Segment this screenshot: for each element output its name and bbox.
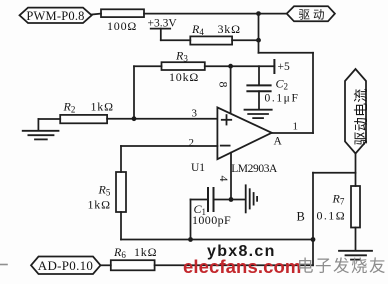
junction pin8 supply	[228, 64, 233, 69]
svg-text:1000pF: 1000pF	[192, 213, 231, 227]
wire output net vertical from top rail	[258, 14, 260, 53]
wire R3 left down to pin3 node	[133, 66, 135, 118]
svg-text:10kΩ: 10kΩ	[169, 70, 199, 84]
scan artifact left edge	[0, 264, 7, 266]
svg-text:R7: R7	[332, 192, 345, 207]
svg-text:1kΩ: 1kΩ	[91, 100, 114, 114]
wire bottom rail	[121, 239, 313, 241]
port 驱动	[287, 6, 335, 21]
wire R6 to node B	[155, 264, 313, 266]
svg-text:R4: R4	[191, 22, 204, 37]
svg-text:+5: +5	[278, 61, 290, 73]
junction C1 riser	[188, 237, 193, 242]
resistor R7	[317, 186, 361, 228]
ground R2	[23, 119, 59, 139]
junction pin4 node	[229, 197, 234, 202]
svg-text:3kΩ: 3kΩ	[218, 22, 241, 36]
svg-text:0.1Ω: 0.1Ω	[317, 209, 347, 223]
wire AD to R6	[101, 264, 111, 266]
svg-text:LM2903A: LM2903A	[231, 163, 278, 175]
ground pin4 (sideways)	[246, 185, 257, 212]
port PWM-P0.8	[20, 8, 92, 23]
svg-text:R3: R3	[175, 49, 188, 64]
svg-text:R2: R2	[63, 100, 76, 115]
wire node B horizontal	[313, 172, 356, 174]
port 驱动电流	[345, 69, 370, 154]
wire ground to R2	[38, 118, 60, 120]
svg-text:8: 8	[217, 82, 231, 88]
resistor R4	[190, 22, 241, 45]
wire pin2 down to R5	[120, 146, 122, 172]
ground C2	[245, 110, 272, 118]
ground R7	[339, 251, 372, 260]
junction top rail	[256, 11, 261, 16]
svg-text:AD-P0.10: AD-P0.10	[38, 258, 94, 273]
svg-text:C2: C2	[276, 77, 289, 92]
resistor R5	[88, 172, 127, 212]
svg-text:电子发烧友: 电子发烧友	[297, 257, 387, 276]
svg-text:1kΩ: 1kΩ	[134, 245, 157, 259]
wire R3 right to +5	[205, 65, 275, 67]
svg-text:驱动电流: 驱动电流	[354, 88, 370, 145]
wire port to R7	[355, 154, 357, 187]
resistor R6	[111, 245, 158, 271]
junction pin3 node	[132, 116, 137, 121]
wire top rail to drive port	[144, 13, 287, 15]
svg-text:2: 2	[189, 137, 195, 149]
wire op-amp output pin1	[272, 132, 313, 134]
svg-text:驱动: 驱动	[299, 8, 328, 21]
capacitor C2	[247, 66, 299, 109]
resistor R3	[162, 49, 205, 85]
wire output net horizontal	[259, 52, 314, 54]
junction B riser on rail	[311, 237, 316, 242]
wire PWM to 100ohm resistor	[92, 13, 101, 16]
resistor R2	[60, 100, 114, 124]
wire output net down to pin1	[312, 53, 314, 133]
svg-text:1kΩ: 1kΩ	[88, 198, 111, 212]
svg-text:U1: U1	[191, 162, 205, 174]
svg-text:PWM-P0.8: PWM-P0.8	[26, 9, 84, 23]
power +3.3V	[148, 18, 178, 41]
svg-text:A: A	[274, 136, 283, 148]
wire pin4 to ground	[231, 199, 246, 201]
junction R4 right	[256, 38, 261, 43]
wire R3 left lead	[134, 65, 162, 67]
svg-text:R6: R6	[113, 245, 126, 260]
wire R2 to pin3	[107, 118, 217, 120]
op-amp U1	[191, 107, 278, 175]
svg-text:3: 3	[192, 108, 198, 120]
svg-text:100Ω: 100Ω	[107, 19, 137, 33]
svg-text:1: 1	[293, 121, 299, 133]
port AD-P0.10	[31, 257, 101, 275]
svg-text:0.1μF: 0.1μF	[265, 93, 300, 105]
wire +3.3V to R4	[161, 39, 191, 41]
capacitor C1	[191, 188, 232, 240]
wire pin2	[121, 145, 217, 147]
wire pin4 stub	[230, 153, 232, 200]
wire R7 to ground	[355, 228, 357, 251]
power +5 terminal	[274, 60, 290, 73]
wire R4 to output net	[232, 39, 258, 41]
svg-text:R5: R5	[98, 183, 111, 198]
wire node B vertical	[312, 173, 314, 266]
wire pin8 stub	[230, 66, 232, 114]
wire R5 down to rail	[120, 212, 122, 240]
svg-text:B: B	[297, 210, 305, 224]
svg-text:elecfans.com: elecfans.com	[183, 256, 301, 277]
svg-text:4: 4	[217, 176, 231, 182]
resistor 100ohm	[101, 9, 144, 33]
